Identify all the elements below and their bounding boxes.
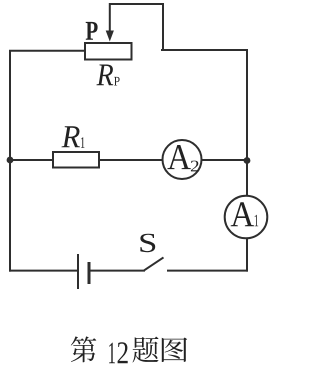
battery long plate (positive): [77, 254, 79, 289]
wire left side rail: [10, 51, 85, 271]
caption number 12: [109, 343, 115, 364]
potentiometer RP body: [85, 43, 132, 60]
ammeter A2: [163, 140, 202, 179]
wire middle row: A2 to right node: [202, 159, 248, 161]
node left junction dot: [7, 157, 14, 164]
wire bottom: left corner to battery: [10, 270, 78, 272]
caption character Di (ordinal): [71, 336, 97, 362]
label RP: [97, 65, 114, 86]
wire bottom: switch fixed contact to bottom-right corner: [168, 270, 247, 272]
resistor R1 body: [53, 152, 99, 168]
caption character Ti (problem): [133, 337, 159, 363]
ammeter A1: [225, 196, 268, 239]
label S (switch): [140, 234, 155, 253]
wire right side below ammeter A1: [246, 238, 248, 271]
wiper arrowhead of potentiometer: [106, 31, 114, 42]
caption character Tu (figure): [162, 338, 187, 363]
wire bottom: battery to switch pivot: [90, 270, 144, 272]
label R1: [62, 126, 80, 147]
wire wiper arm: up from arrow, across the top, down to right rail: [110, 4, 163, 50]
wire middle row: left node to resistor R1: [10, 159, 53, 161]
switch S lever: [144, 257, 164, 270]
node right junction dot: [244, 157, 251, 164]
wire top-right rail across to top-right corner, down to ammeter A1: [162, 50, 247, 196]
battery short plate (negative): [88, 262, 91, 284]
label P (wiper): [86, 22, 98, 40]
wire middle row: R1 to ammeter A2: [99, 159, 163, 161]
